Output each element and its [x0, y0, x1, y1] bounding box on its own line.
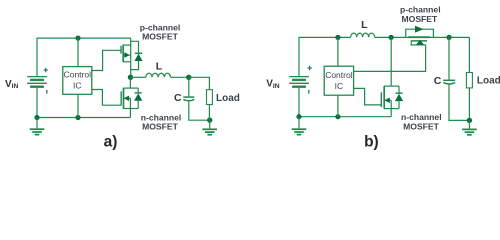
node IC top junction b	[335, 35, 340, 40]
diode body p b	[411, 40, 427, 45]
transistor n-channel MOSFET b	[381, 37, 399, 116]
ground under battery a	[30, 118, 45, 135]
capacitor C b	[443, 37, 469, 120]
IC U1 Control IC (a)	[63, 67, 92, 95]
wire battery bottom b	[298, 88, 300, 117]
node top IC junction a	[75, 36, 80, 41]
svg-text:IN: IN	[273, 83, 280, 90]
svg-text:C: C	[174, 92, 182, 104]
wire gate n a	[92, 90, 121, 106]
inductor L a	[146, 73, 171, 77]
IC U2 Control IC (b)	[324, 66, 353, 95]
transistor n-channel MOSFET a	[121, 77, 138, 117]
ground under load b	[462, 120, 477, 134]
wire midnode to inductor a	[131, 76, 146, 78]
wire bottom rail b	[299, 116, 391, 118]
wire gate n b	[354, 88, 382, 105]
node battery-ground junction a	[34, 115, 39, 120]
diode body p a	[131, 41, 143, 69]
svg-text:IC: IC	[73, 81, 82, 91]
svg-text:Load: Load	[477, 75, 500, 86]
svg-text:L: L	[156, 61, 163, 73]
capacitor C a	[183, 77, 209, 120]
wire inductor to C node a	[171, 76, 189, 78]
svg-text:Control: Control	[325, 70, 353, 80]
wire IC bottom stem b	[337, 95, 339, 117]
ground under load a	[202, 120, 217, 135]
svg-text:b): b)	[364, 133, 379, 150]
wire IC top stem a	[77, 38, 79, 67]
node output a	[186, 75, 191, 80]
diode body n b	[395, 86, 403, 109]
wire IC top stem b	[337, 37, 339, 66]
node midpoint a	[128, 75, 133, 80]
label VIN b	[266, 79, 279, 90]
svg-text:a): a)	[104, 134, 118, 151]
ground under battery b	[292, 117, 307, 135]
node load-ground junction a	[207, 117, 212, 122]
transistor p-channel MOSFET a	[121, 38, 131, 77]
svg-text:Control: Control	[64, 70, 92, 80]
svg-text:MOSFET: MOSFET	[401, 14, 438, 24]
label VIN a	[5, 79, 18, 90]
transistor p-channel MOSFET b	[406, 26, 434, 41]
wire output to load b	[468, 37, 470, 72]
svg-text:MOSFET: MOSFET	[142, 31, 179, 41]
battery VIN a	[27, 68, 48, 94]
wire inductor to midnode b	[375, 36, 406, 38]
diode body n a	[134, 88, 142, 108]
resistor Load b	[466, 73, 472, 121]
node load-ground junction b	[467, 118, 472, 123]
node battery-ground junction b	[296, 114, 301, 119]
wire bottom rail a	[37, 117, 130, 119]
resistor Load a	[207, 90, 213, 120]
svg-text:Load: Load	[216, 93, 240, 104]
wire top rail a	[37, 38, 131, 76]
wire gate p b	[354, 45, 426, 72]
wire battery bottom a	[36, 88, 38, 118]
node output b	[446, 35, 451, 40]
wire node to load a	[189, 77, 210, 89]
svg-text:C: C	[434, 75, 442, 87]
svg-text:L: L	[361, 19, 368, 31]
wire rail to output b	[433, 36, 469, 38]
svg-text:MOSFET: MOSFET	[142, 121, 179, 131]
wire IC bottom stem a	[77, 94, 79, 117]
inductor L b	[351, 33, 375, 37]
wire gate p a	[92, 50, 121, 70]
svg-text:IN: IN	[12, 83, 19, 90]
svg-text:MOSFET: MOSFET	[403, 121, 440, 131]
node IC bottom junction a	[75, 115, 80, 120]
node midpoint b	[389, 35, 394, 40]
svg-text:IC: IC	[335, 81, 344, 91]
wire top rail b	[299, 37, 351, 76]
node IC bottom junction b	[335, 114, 340, 119]
battery VIN b	[289, 66, 312, 94]
